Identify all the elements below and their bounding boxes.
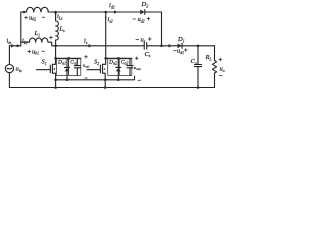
label - ud1 +	[173, 50, 176, 52]
node: dot left of u02 label	[23, 11, 26, 14]
labels + u_ca1 -	[84, 55, 87, 58]
wire: top rail left segment	[21, 11, 26, 13]
label - ud2 +	[133, 18, 136, 20]
circuit schematic: bridgeless boost PFC with snubber cells	[0, 0, 250, 94]
node: Da1 on rail	[66, 79, 69, 82]
wire: S2 cell top	[106, 57, 132, 59]
node: S1 cell top mid	[68, 57, 71, 60]
svg-text:Ls: Ls	[59, 26, 66, 33]
svg-text:is2: is2	[108, 16, 113, 23]
inductor L2 (top coupled winding)	[27, 7, 49, 12]
wire: left riser from row2 to top rail	[20, 12, 22, 46]
node: Da2 on rail	[117, 79, 120, 82]
diode Da1 (inside box, pointing up)	[66, 59, 68, 68]
wire: top rail to D2	[48, 11, 140, 13]
label + uo -	[219, 58, 222, 61]
svg-text:uca1: uca1	[83, 63, 90, 69]
svg-text:uin: uin	[16, 66, 22, 73]
node: S1 source on return	[54, 86, 57, 89]
box Da2	[108, 59, 120, 76]
node: main junction row2 (L1/Ls/S1)	[54, 45, 57, 48]
current arrow i_s (right)	[89, 44, 93, 48]
capacitor Ca1 (inside box)	[76, 59, 78, 66]
wire: row2 drop to S1 cell top	[54, 46, 56, 59]
svg-text:is: is	[84, 38, 88, 45]
svg-text:Cs: Cs	[145, 51, 151, 58]
box Da1	[57, 59, 69, 76]
label - ucs +	[136, 39, 139, 41]
svg-text:D2: D2	[141, 1, 149, 8]
current arrow id2 (right)	[114, 10, 118, 14]
label + u02 -	[24, 16, 27, 19]
wire: cell rail	[56, 76, 135, 80]
svg-text:D1: D1	[177, 36, 185, 43]
resistor RL	[212, 61, 216, 88]
current arrow before D1	[169, 44, 173, 48]
wire: row2 middle segment to Cs	[56, 45, 144, 47]
node: dot on row2 left	[16, 45, 19, 48]
inductor L1	[21, 38, 56, 46]
diode Da2 (inside box, pointing up)	[117, 59, 119, 68]
svg-text:Co: Co	[191, 58, 197, 65]
box Ca2	[119, 59, 132, 76]
svg-text:id2: id2	[109, 2, 115, 9]
svg-text:ud2: ud2	[138, 16, 145, 23]
svg-text:uo: uo	[220, 66, 225, 73]
svg-text:RL: RL	[205, 54, 212, 61]
capacitor Co branch	[197, 46, 199, 65]
svg-text:Ca2: Ca2	[121, 60, 129, 66]
node: S2 source on rail	[104, 79, 107, 82]
node: S1 source on rail	[54, 79, 57, 82]
label + u01 -	[28, 50, 31, 53]
node: S2 cell top mid	[117, 57, 120, 60]
svg-text:us: us	[141, 36, 146, 43]
wire: S2 drain riser	[105, 12, 107, 58]
node: dot where corner meets row2	[160, 45, 163, 48]
capacitor Ca2 (inside box)	[129, 59, 131, 66]
wire: source bottom lead	[8, 73, 10, 88]
diode D1	[178, 43, 182, 48]
svg-text:Da1: Da1	[57, 60, 66, 66]
node: S1 cell top-left	[54, 57, 57, 60]
box Ca1	[69, 59, 81, 76]
node: Co junction on row2	[197, 45, 200, 48]
svg-text:uca2: uca2	[134, 65, 141, 71]
wire: S1 source to rail and return	[54, 80, 56, 88]
wire: source top lead	[8, 46, 10, 65]
svg-text:S2: S2	[94, 59, 99, 66]
node: S2 drain junction on top rail	[104, 11, 107, 14]
svg-text:iin: iin	[7, 38, 12, 45]
svg-text:u02: u02	[29, 14, 36, 21]
svg-text:iL1: iL1	[22, 38, 28, 45]
svg-text:S1: S1	[42, 59, 47, 66]
node: S2 cell top-left	[104, 57, 107, 60]
svg-text:Da2: Da2	[108, 60, 117, 66]
current arrow is2 (down)	[105, 17, 107, 21]
labels + u_ca2 -	[135, 57, 138, 60]
svg-text:ud1: ud1	[177, 48, 184, 55]
wire: S2 source to rail and return	[104, 80, 106, 88]
inductor Ls (vertical)	[56, 12, 59, 46]
svg-text:u01: u01	[32, 48, 39, 55]
wire: S1 cell top	[56, 57, 81, 59]
svg-text:L1: L1	[34, 30, 41, 37]
wire: bottom return line	[9, 86, 214, 88]
wire: row2 to RL corner	[213, 46, 215, 61]
current arrow i_in (right)	[11, 44, 15, 48]
AC source u_in	[5, 65, 13, 73]
node: S2 source on return	[104, 86, 107, 89]
node: junction of Ls on top rail	[54, 11, 57, 14]
node: Co to return line	[197, 86, 200, 89]
diode D2	[140, 10, 144, 15]
wire: row2 right segment	[147, 45, 215, 47]
capacitor Cs	[144, 43, 147, 50]
label + (top of Ls)	[49, 36, 52, 39]
svg-text:iLs: iLs	[57, 13, 63, 20]
current arrow iLs (down)	[55, 13, 57, 17]
wire: row2 left segment	[9, 45, 20, 47]
wire: top rail after D2 + right corner down	[145, 12, 162, 46]
